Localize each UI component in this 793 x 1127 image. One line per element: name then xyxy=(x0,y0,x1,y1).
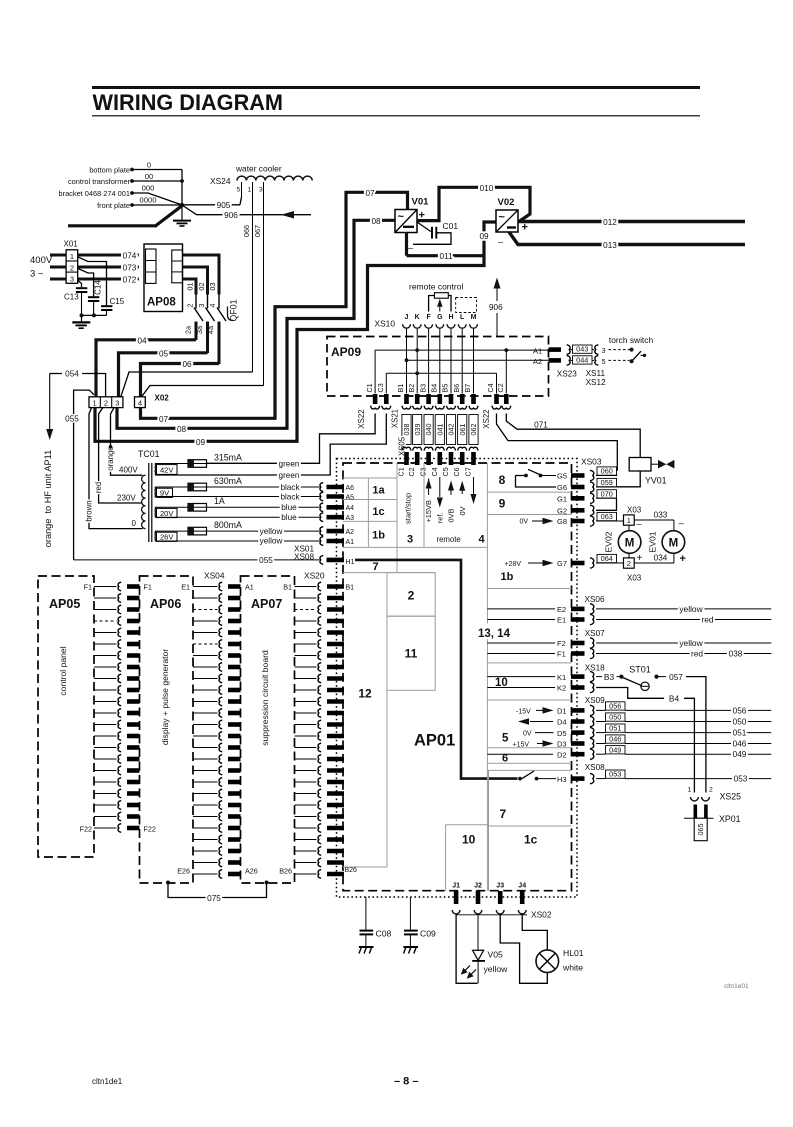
connector XS11 XS12 sockets xyxy=(595,345,599,355)
svg-text:XS21: XS21 xyxy=(391,409,400,428)
svg-text:B4: B4 xyxy=(669,694,680,704)
module AP08 xyxy=(144,244,183,312)
svg-text:049: 049 xyxy=(609,745,621,754)
svg-text:0000: 0000 xyxy=(140,196,157,205)
capacitor C15 xyxy=(101,305,112,307)
svg-text:G8: G8 xyxy=(557,517,567,526)
svg-text:000: 000 xyxy=(142,184,155,193)
svg-text:AP08: AP08 xyxy=(147,297,176,309)
svg-text:B3: B3 xyxy=(418,384,427,393)
svg-text:066: 066 xyxy=(242,225,251,237)
svg-text:M: M xyxy=(625,537,635,549)
svg-text:–: – xyxy=(408,243,413,253)
module AP09 box xyxy=(327,337,549,397)
wire marker 043 xyxy=(570,349,572,351)
wire F2 yellow xyxy=(596,642,771,644)
svg-text:07: 07 xyxy=(365,189,375,198)
connector X03 pin 2 xyxy=(624,558,635,568)
torch switch ST xyxy=(609,349,630,351)
wire marker 064 G7 xyxy=(596,562,624,564)
svg-text:AP01: AP01 xyxy=(414,732,455,750)
svg-text:D2: D2 xyxy=(557,750,567,759)
svg-text:2a: 2a xyxy=(184,325,193,334)
svg-text:2: 2 xyxy=(186,303,195,307)
ground junction dot xyxy=(180,203,184,207)
internal wire D4 out arrow xyxy=(530,721,553,723)
svg-text:ref.: ref. xyxy=(435,513,444,524)
svg-text:013: 013 xyxy=(603,241,617,250)
svg-text:8: 8 xyxy=(499,473,506,487)
wire 906 arrow up xyxy=(496,313,498,337)
wire E2 yellow xyxy=(596,608,771,610)
svg-text:056: 056 xyxy=(609,702,621,711)
wire 072 xyxy=(78,278,139,281)
svg-text:060: 060 xyxy=(601,467,613,476)
chassis ground C08 xyxy=(359,946,374,948)
connector bundle AP05-AP06 F1-F22 xyxy=(94,586,117,588)
svg-text:08: 08 xyxy=(177,425,187,434)
svg-text:start/stop: start/stop xyxy=(404,493,413,524)
svg-text:C13: C13 xyxy=(64,293,79,302)
connector XS02 sockets xyxy=(452,910,460,914)
svg-text:A6: A6 xyxy=(346,485,355,492)
svg-text:C6: C6 xyxy=(452,467,461,476)
TC01 secondary 20V xyxy=(154,507,156,517)
svg-text:H1: H1 xyxy=(346,559,355,566)
svg-text:red: red xyxy=(701,615,713,625)
AP08 right pin column xyxy=(172,250,183,283)
svg-text:06: 06 xyxy=(182,360,192,369)
wire 011 xyxy=(405,233,408,256)
svg-text:1: 1 xyxy=(70,252,74,261)
svg-text:XS04: XS04 xyxy=(204,571,225,581)
signal C7 arrow xyxy=(473,477,475,495)
svg-text:1: 1 xyxy=(627,516,631,525)
svg-text:J1: J1 xyxy=(452,883,460,890)
wire C4 to G5 xyxy=(497,414,618,471)
junction dots at plate labels xyxy=(130,168,134,172)
connector XS23 sockets xyxy=(567,345,571,355)
svg-text:XS06: XS06 xyxy=(585,595,605,604)
svg-text:F1: F1 xyxy=(144,583,152,592)
svg-text:black: black xyxy=(280,492,300,501)
svg-text:3 ~: 3 ~ xyxy=(30,269,44,280)
svg-text:red: red xyxy=(94,482,103,493)
svg-text:XS25: XS25 xyxy=(720,792,742,802)
wire markers D rows xyxy=(596,709,606,711)
svg-text:062: 062 xyxy=(469,424,478,436)
svg-text:11: 11 xyxy=(405,647,418,661)
sockets into AP01 C1-C7 xyxy=(402,447,411,450)
svg-text:J3: J3 xyxy=(496,883,504,890)
svg-text:XS08: XS08 xyxy=(585,763,605,772)
svg-text:C15: C15 xyxy=(110,297,125,306)
svg-text:yellow: yellow xyxy=(484,964,509,974)
svg-text:– 8 –: – 8 – xyxy=(394,1076,418,1088)
AP09 column C2 xyxy=(505,350,507,393)
svg-text:J4: J4 xyxy=(518,883,526,890)
AP01 box 12 line xyxy=(386,690,388,867)
wire X03-2 to EV02 plus xyxy=(628,553,630,558)
svg-text:00: 00 xyxy=(145,172,153,181)
svg-text:011: 011 xyxy=(439,252,452,261)
wire J1 to V05 cathode xyxy=(456,915,477,984)
wire 06 xyxy=(141,364,220,397)
svg-text:2: 2 xyxy=(104,399,108,408)
wire 073 xyxy=(78,266,139,269)
svg-text:HL01: HL01 xyxy=(563,948,584,958)
svg-text:3: 3 xyxy=(259,187,263,194)
svg-text:G7: G7 xyxy=(557,559,567,568)
svg-text:D3: D3 xyxy=(557,740,567,749)
svg-text:26V: 26V xyxy=(160,533,174,542)
capacitor C01 xyxy=(417,222,431,232)
wire black A5 xyxy=(155,496,320,498)
wire 08 xyxy=(117,220,395,428)
svg-text:906: 906 xyxy=(489,303,503,312)
svg-text:1: 1 xyxy=(248,187,252,194)
svg-text:2: 2 xyxy=(627,559,631,568)
svg-text:07: 07 xyxy=(159,415,169,424)
svg-text:01: 01 xyxy=(186,282,195,290)
svg-text:M: M xyxy=(471,314,477,321)
svg-text:F22: F22 xyxy=(144,825,156,834)
svg-text:400V: 400V xyxy=(30,255,53,266)
svg-text:remote: remote xyxy=(437,535,461,544)
svg-text:V05: V05 xyxy=(488,950,504,960)
svg-text:3: 3 xyxy=(407,534,413,546)
svg-text:1A: 1A xyxy=(214,496,225,506)
svg-text:water cooler: water cooler xyxy=(235,164,282,174)
wire green 1 xyxy=(207,414,376,464)
wire J3 to HL01 xyxy=(500,915,547,984)
wire 033 xyxy=(634,519,674,521)
svg-text:K1: K1 xyxy=(557,673,566,682)
wire 05 xyxy=(119,353,208,397)
wire E1 red xyxy=(596,619,771,621)
rectifier V01 xyxy=(395,210,417,233)
TC01 secondary 9V xyxy=(154,487,156,498)
svg-text:B2: B2 xyxy=(407,384,416,393)
lamp HL01 xyxy=(536,950,559,973)
svg-text:X03: X03 xyxy=(627,505,642,514)
wire J2 to V05 anode xyxy=(477,915,479,951)
capacitor C08 xyxy=(365,897,367,930)
svg-text:D4: D4 xyxy=(557,718,567,727)
svg-text:B26: B26 xyxy=(279,867,292,876)
AP08 left pin column xyxy=(146,249,157,283)
svg-text:7: 7 xyxy=(372,561,378,573)
svg-text:3: 3 xyxy=(602,346,606,355)
AP09 internal columns xyxy=(406,337,408,394)
svg-text:E1: E1 xyxy=(181,583,190,592)
svg-text:012: 012 xyxy=(603,218,617,227)
svg-text:YV01: YV01 xyxy=(645,476,667,486)
svg-text:B4: B4 xyxy=(430,384,439,393)
wire 054 xyxy=(50,373,62,375)
svg-text:3a: 3a xyxy=(195,325,204,334)
svg-text:070: 070 xyxy=(601,489,613,498)
module AP07 xyxy=(241,576,295,883)
svg-text:K2: K2 xyxy=(557,684,566,693)
plug XP01 pins xyxy=(693,805,697,819)
svg-text:7: 7 xyxy=(500,807,507,821)
svg-text:010: 010 xyxy=(480,184,494,193)
svg-text:3: 3 xyxy=(70,275,74,284)
svg-text:~: ~ xyxy=(499,212,506,224)
svg-text:orange to HF unit AP11: orange to HF unit AP11 xyxy=(43,450,53,547)
wire 0000 xyxy=(132,204,182,206)
svg-text:063: 063 xyxy=(601,512,613,521)
svg-text:cltn1e01: cltn1e01 xyxy=(724,983,749,990)
svg-text:053: 053 xyxy=(609,770,621,779)
connector XS01 sockets and AP01 left pins xyxy=(320,483,323,492)
svg-text:C7: C7 xyxy=(464,467,473,476)
svg-text:1b: 1b xyxy=(501,571,514,583)
svg-text:0V: 0V xyxy=(523,731,532,738)
TC01 core xyxy=(148,463,150,542)
svg-text:white: white xyxy=(562,963,583,973)
svg-text:M: M xyxy=(669,537,679,549)
svg-text:034: 034 xyxy=(654,553,668,562)
wire 0 xyxy=(132,169,182,171)
svg-text:09: 09 xyxy=(196,438,206,447)
svg-text:3: 3 xyxy=(197,303,206,307)
signal ref arrow xyxy=(439,477,441,497)
svg-text:04: 04 xyxy=(137,336,147,345)
svg-text:064: 064 xyxy=(601,554,613,563)
svg-text:9: 9 xyxy=(499,497,506,511)
svg-text:AP07: AP07 xyxy=(251,597,282,611)
wire 000 xyxy=(132,193,182,205)
internal wire D2 xyxy=(487,753,553,755)
svg-text:046: 046 xyxy=(733,739,747,748)
svg-text:XS02: XS02 xyxy=(531,910,552,920)
svg-text:AP05: AP05 xyxy=(49,597,80,611)
svg-text:A1: A1 xyxy=(346,539,355,546)
svg-text:053: 053 xyxy=(734,775,748,784)
svg-text:049: 049 xyxy=(733,750,747,759)
wire marker 059 G6 xyxy=(596,486,616,488)
svg-text:2: 2 xyxy=(709,787,713,794)
svg-text:05: 05 xyxy=(159,349,169,358)
svg-text:0V: 0V xyxy=(458,506,467,515)
svg-text:XS11: XS11 xyxy=(586,369,606,378)
svg-text:905: 905 xyxy=(217,201,231,210)
motor EV01 xyxy=(662,531,685,554)
svg-text:20V: 20V xyxy=(160,509,174,518)
wire drop to ground node xyxy=(181,170,183,206)
svg-text:-15V: -15V xyxy=(516,709,531,716)
wire blue A3 xyxy=(155,516,320,518)
plug XP01 body wire 065 xyxy=(684,817,714,819)
signal 0V arrow xyxy=(461,485,463,495)
svg-text:B5: B5 xyxy=(441,384,450,393)
wire 010 xyxy=(417,187,530,221)
wire 013 xyxy=(509,232,745,245)
svg-text:red: red xyxy=(691,649,703,659)
svg-text:C14: C14 xyxy=(93,280,102,295)
svg-text:061: 061 xyxy=(458,424,467,436)
wire 034 xyxy=(634,562,674,564)
svg-text:02: 02 xyxy=(197,282,206,290)
svg-text:13, 14: 13, 14 xyxy=(478,628,511,640)
svg-text:F2: F2 xyxy=(557,639,566,648)
svg-text:C3: C3 xyxy=(419,467,428,476)
svg-text:A26: A26 xyxy=(245,867,258,876)
AP09 column C3 xyxy=(385,373,387,393)
svg-text:J2: J2 xyxy=(474,883,482,890)
svg-text:XS22: XS22 xyxy=(482,410,491,429)
svg-text:B6: B6 xyxy=(452,384,461,393)
svg-text:G1: G1 xyxy=(557,495,567,504)
capacitor C14 xyxy=(88,296,99,298)
title rule top xyxy=(92,86,700,89)
svg-text:0VB: 0VB xyxy=(447,508,456,522)
svg-text:C4: C4 xyxy=(486,383,495,392)
dashed box pins L M xyxy=(456,298,477,313)
wire to TC01 0 tap brown xyxy=(89,408,143,529)
capacitor C09 xyxy=(409,897,411,930)
AP09 node C3-C4 row xyxy=(386,372,496,374)
wire marker 044 xyxy=(570,359,572,361)
wire AP08 to QF01 contact 02 xyxy=(183,267,208,295)
title rule bottom xyxy=(92,115,700,117)
solenoid valve YV01 xyxy=(629,458,651,472)
wire 066 xyxy=(252,182,254,372)
AP01 box 10 bottom xyxy=(446,824,489,826)
svg-text:055: 055 xyxy=(259,556,273,565)
wire marker 070 G1-G2 loop xyxy=(596,497,617,499)
mains input wires xyxy=(50,254,66,257)
motor EV02 xyxy=(618,531,641,554)
wire 071 xyxy=(506,414,640,458)
svg-text:A3: A3 xyxy=(346,515,355,522)
svg-text:X03: X03 xyxy=(627,574,642,583)
svg-text:bracket 0468 274 001: bracket 0468 274 001 xyxy=(59,189,131,198)
svg-text:C08: C08 xyxy=(376,929,392,939)
svg-text:08: 08 xyxy=(371,217,381,226)
AP09 column C4 xyxy=(496,373,498,393)
module AP01 dashed border xyxy=(343,463,572,891)
svg-text:056: 056 xyxy=(733,706,747,715)
AP01 box 11 xyxy=(387,616,435,690)
svg-text:065: 065 xyxy=(696,824,705,836)
svg-text:~: ~ xyxy=(398,211,405,223)
wire J4 to HL01 xyxy=(522,915,547,950)
svg-text:+: + xyxy=(522,222,528,234)
svg-text:A2: A2 xyxy=(533,357,542,366)
internal wires section 10 xyxy=(487,676,555,678)
svg-text:B26: B26 xyxy=(345,867,358,874)
svg-text:050: 050 xyxy=(733,717,747,726)
svg-text:0: 0 xyxy=(147,160,151,169)
svg-text:051: 051 xyxy=(733,729,747,738)
svg-text:V02: V02 xyxy=(498,197,515,208)
svg-text:033: 033 xyxy=(654,510,668,519)
fuse 1A wire blue A4 xyxy=(155,506,320,508)
svg-text:E1: E1 xyxy=(557,616,566,625)
module AP06 xyxy=(140,576,194,883)
svg-text:brown: brown xyxy=(85,500,94,521)
svg-text:F22: F22 xyxy=(80,825,92,834)
signal 0VB arrow xyxy=(450,485,452,496)
svg-text:XS23: XS23 xyxy=(557,370,577,379)
svg-text:green: green xyxy=(279,459,300,468)
svg-text:0: 0 xyxy=(132,519,137,528)
svg-text:F: F xyxy=(426,314,431,321)
ground symbol PE capacitors xyxy=(81,315,83,321)
svg-text:4: 4 xyxy=(479,534,486,546)
svg-text:057: 057 xyxy=(669,673,683,682)
wire X03-1 to EV02 xyxy=(628,525,630,530)
svg-text:XS12: XS12 xyxy=(586,378,606,387)
svg-text:F1: F1 xyxy=(84,583,92,592)
svg-text:yellow: yellow xyxy=(679,638,703,648)
rectifier V02 xyxy=(496,210,518,232)
svg-text:–: – xyxy=(637,519,642,529)
AP01 right sections borders xyxy=(486,463,488,624)
svg-text:1: 1 xyxy=(688,787,692,794)
svg-text:control panel: control panel xyxy=(58,646,68,695)
AP01 box 2 xyxy=(387,573,435,617)
svg-text:050: 050 xyxy=(609,713,621,722)
svg-text:3: 3 xyxy=(115,399,119,408)
svg-text:XS03: XS03 xyxy=(581,457,602,467)
ground symbol PE xyxy=(181,205,183,220)
svg-text:XS07: XS07 xyxy=(585,629,605,638)
svg-text:+: + xyxy=(637,553,643,564)
svg-text:WIRING DIAGRAM: WIRING DIAGRAM xyxy=(93,90,284,115)
svg-text:C3: C3 xyxy=(376,383,385,392)
svg-text:G5: G5 xyxy=(557,472,567,481)
svg-text:X01: X01 xyxy=(64,240,79,249)
svg-text:XS20: XS20 xyxy=(304,571,325,581)
wire AP08 to QF01 contact 03 xyxy=(183,255,220,295)
wire B3 K1 xyxy=(596,676,602,678)
svg-text:G6: G6 xyxy=(557,483,567,492)
wire 054 arrow to HF unit AP11 xyxy=(49,374,51,430)
svg-text:055: 055 xyxy=(65,415,79,424)
svg-text:E26: E26 xyxy=(177,867,190,876)
wire 09 xyxy=(95,222,496,441)
svg-text:torch switch: torch switch xyxy=(609,335,654,345)
svg-text:040: 040 xyxy=(424,424,433,436)
svg-text:green: green xyxy=(279,471,300,480)
svg-text:D5: D5 xyxy=(557,729,567,738)
svg-text:400V: 400V xyxy=(119,465,138,474)
wire 075 xyxy=(166,881,170,885)
thick chassis wire xyxy=(156,205,183,225)
wire X01-2 to C14 xyxy=(78,269,94,297)
svg-text:E2: E2 xyxy=(557,605,566,614)
svg-text:4: 4 xyxy=(208,303,217,307)
svg-text:AP06: AP06 xyxy=(150,597,181,611)
connector bundle XS04 E1-E26 xyxy=(193,586,218,588)
svg-text:yellow: yellow xyxy=(260,537,283,546)
signal +15VB arrow xyxy=(428,479,430,496)
internal switch H3 xyxy=(518,777,522,781)
svg-text:044: 044 xyxy=(576,356,588,365)
wire 057 xyxy=(657,676,667,678)
junction dot 00 xyxy=(180,179,184,183)
svg-text:ST01: ST01 xyxy=(629,664,651,674)
svg-text:1c: 1c xyxy=(524,833,538,847)
wire 07 xyxy=(141,192,408,418)
wire 42V top with fuse 315mA xyxy=(155,463,207,465)
svg-text:42V: 42V xyxy=(160,465,174,474)
svg-text:XS22: XS22 xyxy=(357,410,366,429)
